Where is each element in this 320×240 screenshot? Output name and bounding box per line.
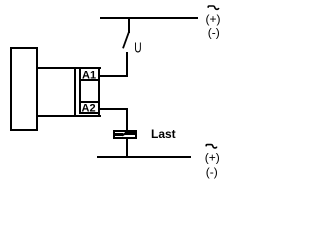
svg-text:A1: A1 [82, 70, 96, 82]
svg-text:A2: A2 [82, 103, 96, 115]
svg-text:(-): (-) [208, 26, 220, 40]
svg-text:(+): (+) [205, 150, 220, 164]
svg-text:(-): (-) [206, 165, 218, 179]
svg-text:Last: Last [151, 127, 176, 141]
svg-text:U: U [134, 39, 141, 56]
svg-text:(+): (+) [206, 12, 221, 26]
